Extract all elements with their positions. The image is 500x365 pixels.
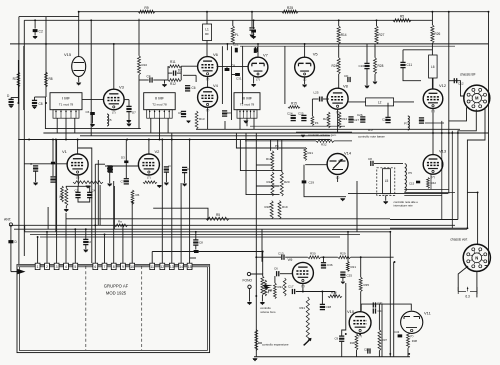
resistor R17: [271, 172, 274, 196]
label C43: [394, 330, 400, 334]
label R8: [49, 77, 53, 81]
wire terminal 11 up: [151, 252, 153, 264]
ground iiimf: [243, 121, 248, 124]
svg-text:C8: C8: [39, 102, 43, 106]
wire right edge down: [488, 12, 490, 264]
wire V14 gnd stub: [337, 176, 339, 182]
wire vlong a: [24, 225, 26, 232]
resistor R8: [45, 72, 48, 87]
wire cluster left v: [167, 66, 169, 80]
wire c8b link: [232, 74, 236, 76]
tube V8: [327, 88, 348, 114]
wire left col a: [17, 60, 19, 103]
wire V7 gnd lead: [253, 77, 255, 84]
inductor L6: [429, 55, 438, 78]
wire v6 plate up: [221, 46, 223, 104]
wire bus y44: [10, 43, 489, 45]
svg-text:C6: C6: [86, 110, 90, 114]
label R25: [287, 6, 293, 10]
label C38: [326, 305, 332, 309]
wire T3 pin lead c: [253, 118, 255, 129]
svg-text:C8: C8: [368, 157, 372, 161]
resistor R fono: [255, 330, 258, 351]
capacitor C7v1: [107, 166, 112, 171]
wire terminal 15 up: [189, 208, 191, 263]
label C40: [378, 301, 384, 305]
svg-text:R7: R7: [13, 77, 17, 81]
wire y193 run: [348, 193, 448, 195]
svg-text:R24: R24: [342, 117, 348, 121]
resistor R2h: [143, 181, 157, 184]
label controllo: [260, 306, 271, 310]
svg-text:R-2: R-2: [368, 128, 373, 132]
resistor R34: [283, 278, 286, 296]
label L25: [314, 91, 319, 95]
wire fono gnd lead: [249, 289, 251, 302]
wire T3 pin lead b: [246, 118, 248, 126]
wire top-left corner outer: [19, 16, 79, 18]
wire RLL drop: [338, 20, 340, 26]
wire V1 top lead: [77, 140, 79, 155]
capacitor C16: [364, 63, 369, 68]
svg-text:C12: C12: [364, 348, 370, 352]
wire v 918 down: [91, 155, 93, 263]
label CB: [368, 157, 372, 161]
wire v 348: [347, 232, 349, 262]
wire C11v3 top: [128, 100, 130, 106]
wire bus y229: [14, 228, 467, 230]
wire C34 gnd link: [78, 198, 90, 202]
label R23: [323, 117, 329, 121]
tube V11: [401, 311, 423, 338]
wire bus y237: [40, 236, 340, 238]
wire C16 bot: [366, 69, 368, 85]
ground C5: [90, 124, 95, 127]
wire V3 to C11v3: [124, 99, 129, 101]
ground C1v1: [33, 183, 38, 186]
wire bus y225: [10, 224, 455, 226]
label volume fono: [260, 310, 276, 314]
inductor P5 winding: [405, 164, 407, 192]
label E2: [89, 240, 92, 244]
wire T2 pin lead b: [159, 118, 161, 139]
wire imf to V3: [82, 99, 104, 101]
resistor R35: [359, 277, 362, 291]
svg-text:chassis BF: chassis BF: [460, 73, 476, 77]
ground C16: [364, 86, 369, 89]
tube V12: [423, 89, 443, 113]
label GRUPPO AF: [104, 284, 129, 289]
rail terminal strip: [17, 265, 210, 267]
transformer T1 I MF: [50, 93, 82, 119]
svg-text:R20: R20: [284, 180, 290, 184]
wire L1 feed: [206, 12, 208, 24]
wire C25v9 gnd: [342, 278, 344, 281]
label chassis BF: [460, 73, 476, 77]
resistor R19: [278, 201, 281, 219]
wire terminal 7 up: [104, 234, 106, 263]
svg-text:R6: R6: [136, 193, 140, 197]
label R7: [13, 77, 17, 81]
wire top bus B: [24, 19, 432, 21]
resistor R36: [355, 334, 358, 350]
ground V14net: [340, 198, 345, 201]
svg-text:(7): (7): [147, 176, 151, 180]
wire P5 out a: [404, 188, 449, 190]
wire bottom bus: [254, 356, 410, 358]
wire y208 link: [153, 208, 208, 219]
capacitor C3l: [75, 192, 80, 197]
resistor R28: [374, 58, 377, 74]
wire C11 top: [402, 50, 404, 62]
capacitor C11v3: [126, 106, 131, 111]
label MOD 1925: [106, 291, 127, 296]
svg-text:C28: C28: [382, 118, 388, 122]
capacitor D2: [174, 71, 176, 76]
wire C3 stub: [77, 186, 79, 192]
wire C2 drop: [34, 20, 36, 28]
label C5b: [178, 111, 182, 115]
wire T1 pin lead b: [65, 118, 67, 139]
label R11: [170, 60, 176, 64]
wire terminal 10 up: [131, 202, 133, 263]
svg-text:C15: C15: [409, 182, 415, 186]
label C25: [298, 112, 304, 116]
svg-text:V5: V5: [313, 52, 319, 57]
label C36: [327, 263, 333, 267]
svg-text:T3 mod 78: T3 mod 78: [240, 103, 255, 107]
wire L5 gnd lead: [385, 195, 387, 200]
inductor B1: [107, 114, 109, 126]
svg-text:C6: C6: [274, 267, 278, 271]
capacitor C13: [282, 255, 284, 260]
wire y228 right: [390, 227, 467, 229]
wire bus y232: [25, 231, 390, 233]
svg-text:2: 2: [46, 265, 48, 269]
svg-text:C7: C7: [121, 180, 125, 184]
wire C1 lead: [10, 98, 12, 100]
wire espans left: [258, 342, 262, 344]
wire N heater left: [458, 266, 468, 291]
wire terminal 13 up: [171, 140, 173, 264]
label R15: [291, 102, 297, 106]
tube V14: [327, 154, 348, 180]
wire V6 V4 link: [207, 77, 209, 87]
svg-text:R23: R23: [323, 117, 329, 121]
svg-text:C43: C43: [394, 330, 400, 334]
label C25v9: [347, 274, 353, 278]
resistor R12: [168, 79, 181, 82]
label R27: [379, 33, 385, 37]
capacitor CII: [193, 240, 198, 245]
wire terminal 6 up: [94, 164, 96, 263]
wire M step2: [458, 109, 476, 219]
svg-text:C16: C16: [359, 64, 365, 68]
wire R27 drop: [376, 20, 378, 26]
svg-text:V6: V6: [213, 52, 219, 57]
svg-text:C2: C2: [39, 30, 43, 34]
wire v 912: [90, 20, 92, 136]
terminal 8: [111, 263, 116, 269]
ground C7v2: [182, 184, 187, 187]
label R19: [282, 205, 288, 209]
capacitor C43: [398, 334, 403, 337]
capacitor C2L: [291, 115, 296, 120]
svg-text:R25: R25: [287, 6, 293, 10]
wire L6 top: [431, 43, 433, 55]
wire R1 stub: [65, 186, 67, 188]
ground FONO: [247, 302, 252, 305]
label V5: [313, 52, 319, 57]
resistor R20: [280, 172, 283, 196]
label R21c: [351, 265, 357, 269]
wire pot volume gen: [296, 132, 352, 134]
wire P6 drop: [277, 140, 279, 151]
svg-text:R16: R16: [266, 157, 272, 161]
wire vlong c: [55, 140, 57, 232]
wire vlong g: [171, 133, 173, 140]
svg-text:V2: V2: [155, 149, 161, 154]
svg-text:14: 14: [179, 265, 183, 269]
resistor R24b: [338, 112, 341, 128]
wire terminal 8 up: [113, 181, 115, 263]
svg-text:R18: R18: [265, 205, 271, 209]
svg-text:1: 1: [37, 265, 39, 269]
ground C2: [33, 36, 38, 39]
label R31: [300, 306, 306, 310]
wire V12 top link: [432, 78, 434, 89]
svg-text:MOD 1925: MOD 1925: [106, 291, 127, 296]
jack FONO bottom: [248, 285, 251, 288]
capacitor D4: [51, 162, 55, 165]
wire C7v2 gnd: [184, 173, 186, 183]
wire C39 bot: [341, 342, 343, 357]
terminal 7: [102, 263, 107, 269]
wire C4a lead l: [139, 79, 149, 81]
capacitor D8: [222, 111, 227, 116]
capacitor C25v9: [340, 272, 345, 277]
wire terminal 3 up: [56, 140, 58, 264]
label PL: [235, 33, 239, 37]
wire R1 gnd link: [65, 206, 67, 209]
svg-text:R42: R42: [431, 181, 437, 185]
svg-text:V1: V1: [62, 149, 68, 154]
wire V1 left net: [24, 163, 67, 165]
wire bus y46: [240, 45, 455, 47]
svg-text:C21: C21: [233, 43, 239, 47]
label D ant: [15, 240, 18, 244]
wire left edge inner: [23, 20, 25, 256]
label C21b: [233, 43, 239, 47]
svg-text:C36: C36: [327, 263, 333, 267]
resistor R38: [407, 332, 410, 348]
svg-text:5: 5: [74, 265, 76, 269]
terminal 4: [64, 263, 69, 269]
svg-text:R5: R5: [400, 15, 404, 19]
wire C1v1 gnd: [35, 172, 37, 183]
wire D2 leads2: [177, 72, 181, 74]
label R18: [265, 205, 271, 209]
label V14: [344, 151, 352, 156]
svg-text:3: 3: [56, 265, 58, 269]
label V10: [347, 309, 355, 314]
label C12bf: [458, 82, 464, 86]
wire v 357: [356, 181, 358, 232]
label R10: [142, 63, 148, 67]
svg-text:R21: R21: [351, 265, 357, 269]
wire D2 leads: [168, 72, 172, 74]
resistor R15: [288, 106, 300, 109]
svg-text:(7): (7): [206, 108, 210, 112]
tube V7: [248, 57, 268, 81]
svg-text:C38: C38: [326, 305, 332, 309]
svg-text:D8: D8: [227, 111, 231, 115]
inductor L1 RF: [203, 24, 212, 41]
label R33: [331, 291, 337, 295]
arrow P4 wiper: [263, 284, 272, 288]
label V15: [64, 52, 72, 57]
resistor R5 top: [393, 19, 411, 22]
wire C29 v: [303, 165, 305, 181]
label R16: [266, 157, 272, 161]
wire CII gnd: [195, 246, 197, 250]
capacitor D3: [124, 161, 128, 164]
svg-text:R27: R27: [379, 33, 385, 37]
tube V3: [104, 89, 125, 114]
svg-text:R36: R36: [350, 341, 356, 345]
label R6v2: [136, 193, 140, 197]
resistor R31 espansione: [306, 297, 309, 341]
wire fono stub a: [256, 164, 272, 166]
capacitor D ant: [8, 240, 13, 243]
resistor R18: [270, 201, 273, 219]
label FONO: [243, 279, 253, 283]
wire C4 stub: [89, 186, 91, 192]
wire bus y126: [250, 125, 345, 127]
label CII: [199, 241, 203, 245]
wire P5 out c: [404, 195, 442, 197]
capacitor C12bf: [454, 78, 456, 83]
svg-text:C31: C31: [236, 77, 242, 81]
label R20: [284, 180, 290, 184]
dimension 6.3: [458, 286, 477, 298]
wire left col c: [45, 17, 47, 97]
svg-text:controllo espansione: controllo espansione: [262, 342, 289, 346]
svg-text:R35: R35: [364, 283, 370, 287]
ground V7: [251, 84, 256, 87]
ground volgen: [301, 135, 305, 138]
svg-text:R14: R14: [341, 33, 347, 37]
label D3: [121, 156, 125, 160]
label V7: [263, 53, 269, 58]
capacitor C21b: [235, 48, 238, 53]
wire C23 drop: [253, 20, 255, 29]
wire L6 branch: [403, 49, 432, 51]
wire terminal 2 up: [46, 232, 48, 263]
label R28: [378, 64, 384, 68]
ground C7v1: [107, 184, 112, 187]
wire D4 v: [52, 140, 54, 162]
wire terminal 1 up: [37, 237, 39, 263]
label C5a: [86, 110, 90, 114]
wire terminal 12 up: [161, 173, 163, 264]
label R24b: [342, 117, 348, 121]
wire R32 line2: [334, 140, 352, 142]
capacitor C8a: [32, 100, 37, 105]
svg-text:V7: V7: [263, 53, 269, 58]
ground Rv1h: [85, 186, 90, 189]
svg-text:R5: R5: [216, 213, 220, 217]
wire L25 right: [323, 98, 329, 100]
wire T2 pin lead c: [167, 118, 169, 133]
ground C25v9: [341, 282, 345, 285]
ground R1: [64, 209, 69, 212]
ground C23: [251, 36, 256, 39]
wire R24a link: [338, 44, 340, 58]
wire feed step B: [240, 140, 281, 171]
ground C11v3: [126, 124, 131, 127]
wire L25 down: [311, 99, 313, 116]
wire C16 top: [366, 44, 368, 63]
wire v 231: [231, 46, 233, 120]
resistor Rv1: [61, 186, 64, 202]
svg-text:T1 mod 78: T1 mod 78: [59, 103, 74, 107]
label C2: [39, 30, 43, 34]
svg-text:15: 15: [188, 265, 192, 269]
wire imf shield: [45, 97, 140, 129]
wire v11 left1: [389, 232, 391, 357]
resistor R13: [195, 111, 198, 129]
svg-text:V15: V15: [64, 52, 72, 57]
wire L2 right: [394, 101, 414, 103]
potentiometer P4b: [311, 116, 314, 126]
svg-text:volume fono: volume fono: [260, 310, 276, 314]
label V4: [213, 83, 219, 88]
wire ant down: [10, 226, 12, 272]
label R24a: [332, 64, 338, 68]
wire C17 right: [296, 291, 335, 293]
wire E2 top: [85, 229, 87, 239]
label C32: [364, 348, 370, 352]
wire V15 feed: [78, 12, 80, 56]
tube V10: [349, 312, 371, 338]
svg-text:R11: R11: [170, 60, 176, 64]
label C42b: [378, 309, 384, 313]
wire v6 box drop: [195, 75, 197, 82]
svg-text:9: 9: [122, 265, 124, 269]
capacitor C24: [255, 47, 257, 52]
wire v 1388a: [138, 19, 140, 56]
svg-text:L25: L25: [314, 91, 319, 95]
ground CII: [193, 250, 198, 253]
svg-text:ANT.: ANT.: [4, 218, 11, 222]
svg-text:R30: R30: [310, 252, 316, 256]
wire v 1388b: [138, 75, 140, 129]
arrow R31 wiper: [303, 338, 312, 346]
wire R35 bot: [360, 292, 362, 312]
svg-text:N: N: [475, 255, 478, 260]
terminal 2: [45, 263, 50, 269]
wire C21 drop: [251, 12, 253, 27]
wire R38 bot: [407, 348, 409, 357]
svg-text:4: 4: [65, 265, 67, 269]
wire L1 to V6: [206, 41, 208, 57]
label R17: [267, 180, 273, 184]
svg-text:R1: R1: [60, 195, 64, 199]
potentiometer P4 fono: [261, 276, 264, 295]
wire v 227: [226, 44, 228, 50]
wire terminal 9 up: [122, 225, 124, 263]
